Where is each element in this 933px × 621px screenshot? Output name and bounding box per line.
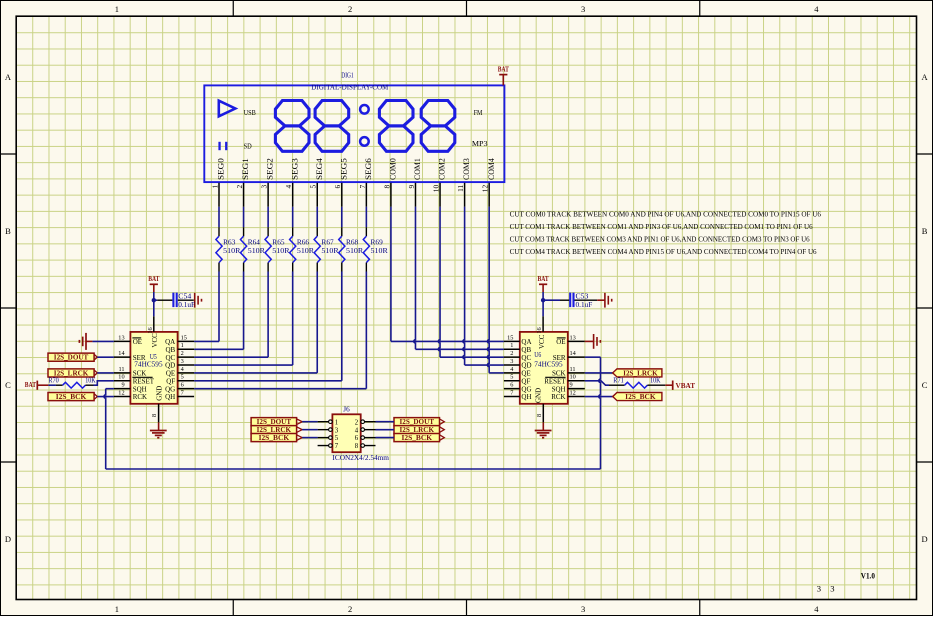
- svg-text:VBAT: VBAT: [676, 381, 696, 390]
- svg-text:CUT COM4 TRACK BETWEEN COM4 AN: CUT COM4 TRACK BETWEEN COM4 AND PIN15 OF…: [510, 248, 817, 256]
- svg-text:RCK: RCK: [551, 393, 565, 401]
- svg-text:14: 14: [118, 350, 125, 357]
- svg-text:8: 8: [151, 414, 158, 417]
- svg-text:I2S_BCK: I2S_BCK: [56, 394, 87, 401]
- svg-text:QC: QC: [165, 354, 175, 362]
- svg-text:5: 5: [510, 374, 513, 381]
- svg-text:COM0: COM0: [389, 158, 398, 180]
- svg-text:0.1uF: 0.1uF: [178, 301, 195, 309]
- svg-text:I2S_BCK: I2S_BCK: [259, 435, 290, 442]
- svg-text:1: 1: [510, 342, 513, 349]
- svg-text:I2S_LRCK: I2S_LRCK: [54, 370, 89, 377]
- svg-text:2: 2: [181, 350, 184, 357]
- svg-text:3: 3: [335, 427, 339, 434]
- svg-text:I2S_LRCK: I2S_LRCK: [623, 370, 658, 377]
- svg-text:A: A: [5, 72, 12, 82]
- svg-text:6: 6: [333, 185, 342, 189]
- svg-text:7: 7: [335, 443, 339, 450]
- svg-text:SEG1: SEG1: [241, 158, 250, 180]
- svg-text:QG: QG: [521, 385, 531, 393]
- svg-text:0.1uF: 0.1uF: [576, 301, 593, 309]
- svg-text:SEG3: SEG3: [290, 158, 299, 180]
- svg-text:510R: 510R: [297, 248, 315, 255]
- svg-text:7: 7: [510, 389, 513, 396]
- svg-text:SEG4: SEG4: [315, 158, 324, 180]
- svg-text:COM3: COM3: [462, 158, 471, 180]
- svg-text:R65: R65: [272, 240, 285, 247]
- svg-text:OE: OE: [133, 338, 142, 346]
- svg-text:14: 14: [570, 350, 577, 357]
- svg-text:1: 1: [210, 185, 219, 189]
- svg-text:D: D: [5, 534, 11, 544]
- svg-text:BAT: BAT: [148, 274, 159, 283]
- svg-text:USB: USB: [244, 108, 256, 117]
- svg-text:R67: R67: [321, 240, 334, 247]
- svg-text:10: 10: [570, 374, 576, 381]
- svg-text:11: 11: [456, 185, 465, 192]
- svg-text:8: 8: [355, 443, 359, 450]
- svg-text:12: 12: [481, 184, 490, 192]
- svg-text:SQH: SQH: [552, 385, 566, 393]
- svg-text:J6: J6: [343, 406, 350, 414]
- svg-text:SEG5: SEG5: [339, 158, 348, 180]
- svg-text:2: 2: [355, 419, 359, 426]
- svg-text:BAT: BAT: [25, 380, 36, 389]
- svg-text:11: 11: [119, 366, 125, 373]
- svg-text:QF: QF: [521, 377, 530, 385]
- svg-text:5: 5: [309, 185, 318, 189]
- svg-text:RESET: RESET: [544, 377, 566, 385]
- svg-text:3: 3: [181, 358, 184, 365]
- svg-text:QC: QC: [521, 354, 531, 362]
- svg-text:16: 16: [147, 327, 154, 333]
- svg-text:DIG1: DIG1: [341, 71, 354, 79]
- svg-text:V1.0: V1.0: [861, 570, 875, 580]
- svg-text:R68: R68: [346, 240, 359, 247]
- svg-text:QF: QF: [166, 377, 175, 385]
- svg-text:510R: 510R: [248, 248, 266, 255]
- svg-text:15: 15: [181, 334, 187, 341]
- svg-text:VCC: VCC: [151, 333, 159, 348]
- svg-text:13: 13: [118, 334, 124, 341]
- svg-text:A: A: [922, 72, 929, 82]
- svg-text:QB: QB: [165, 346, 175, 354]
- svg-text:B: B: [5, 226, 11, 236]
- svg-text:11: 11: [570, 366, 576, 373]
- svg-text:16: 16: [536, 327, 543, 333]
- svg-text:CUT COM1 TRACK BETWEEN COM1 AN: CUT COM1 TRACK BETWEEN COM1 AND PIN3 OF …: [510, 223, 813, 231]
- svg-text:7: 7: [358, 185, 367, 189]
- svg-text:12: 12: [570, 389, 576, 396]
- svg-text:3: 3: [581, 604, 585, 614]
- svg-text:12: 12: [118, 389, 124, 396]
- svg-text:10K: 10K: [85, 378, 96, 385]
- svg-text:1: 1: [115, 4, 119, 14]
- svg-text:RESET: RESET: [133, 377, 155, 385]
- svg-text:2: 2: [348, 604, 352, 614]
- svg-text:6: 6: [510, 382, 513, 389]
- svg-text:GND: GND: [535, 388, 543, 403]
- svg-text:3: 3: [510, 358, 513, 365]
- svg-text:R69: R69: [371, 240, 384, 247]
- svg-text:2: 2: [348, 4, 352, 14]
- svg-text:74HC595: 74HC595: [134, 359, 163, 368]
- svg-text:4: 4: [814, 4, 819, 14]
- svg-text:R71: R71: [613, 377, 623, 384]
- svg-text:QE: QE: [166, 370, 175, 378]
- svg-text:R63: R63: [223, 240, 236, 247]
- svg-text:CUT COM0 TRACK BETWEEN COM0 AN: CUT COM0 TRACK BETWEEN COM0 AND PIN4 OF …: [510, 210, 822, 218]
- svg-text:R70: R70: [48, 378, 59, 385]
- svg-text:510R: 510R: [321, 248, 339, 255]
- svg-text:COM2: COM2: [438, 158, 447, 180]
- svg-text:1: 1: [335, 419, 338, 426]
- svg-text:3: 3: [260, 185, 269, 189]
- svg-text:QH: QH: [521, 393, 531, 401]
- svg-text:C53: C53: [576, 292, 589, 300]
- svg-text:1: 1: [181, 342, 184, 349]
- svg-text:8: 8: [382, 185, 391, 189]
- svg-text:R64: R64: [248, 240, 261, 247]
- svg-text:15: 15: [507, 334, 513, 341]
- svg-text:QE: QE: [521, 370, 530, 378]
- svg-text:SCK: SCK: [552, 370, 566, 378]
- svg-text:B: B: [922, 226, 928, 236]
- svg-text:9: 9: [407, 185, 416, 189]
- svg-text:QA: QA: [521, 338, 531, 346]
- svg-text:FM: FM: [474, 108, 483, 117]
- svg-text:1: 1: [115, 604, 119, 614]
- svg-text:C: C: [5, 380, 11, 390]
- svg-text:R66: R66: [297, 240, 310, 247]
- svg-text:13: 13: [570, 334, 576, 341]
- svg-text:SQH: SQH: [133, 385, 147, 393]
- svg-text:SD: SD: [244, 141, 253, 150]
- svg-text:SEG2: SEG2: [266, 158, 275, 180]
- svg-text:COM1: COM1: [413, 158, 422, 180]
- svg-text:QG: QG: [165, 385, 175, 393]
- svg-text:9: 9: [570, 382, 573, 389]
- svg-text:4: 4: [814, 604, 819, 614]
- svg-text:SEG6: SEG6: [364, 158, 373, 180]
- svg-text:2: 2: [235, 185, 244, 189]
- svg-text:D: D: [922, 534, 928, 544]
- svg-text:4: 4: [355, 427, 359, 434]
- svg-text:QH: QH: [165, 393, 175, 401]
- svg-text:GND: GND: [155, 386, 163, 401]
- svg-text:510R: 510R: [371, 248, 389, 255]
- svg-text:3: 3: [581, 4, 585, 14]
- svg-text:3: 3: [817, 584, 821, 594]
- svg-text:2: 2: [510, 350, 513, 357]
- svg-text:U6: U6: [534, 351, 541, 359]
- svg-text:SEG0: SEG0: [217, 158, 226, 180]
- svg-text:7: 7: [181, 389, 184, 396]
- svg-text:510R: 510R: [272, 248, 290, 255]
- svg-text:9: 9: [121, 382, 124, 389]
- svg-text:74HC595: 74HC595: [534, 359, 563, 368]
- svg-text:5: 5: [335, 435, 339, 442]
- svg-text:BAT: BAT: [538, 274, 549, 283]
- svg-text:I2S_DOUT: I2S_DOUT: [54, 355, 89, 362]
- svg-text:QD: QD: [521, 362, 531, 370]
- svg-text:QD: QD: [165, 362, 175, 370]
- svg-text:6: 6: [181, 382, 184, 389]
- svg-text:6: 6: [355, 435, 359, 442]
- svg-text:4: 4: [284, 185, 293, 189]
- svg-text:DIGITAL-DISPLAY-COM: DIGITAL-DISPLAY-COM: [311, 82, 388, 91]
- svg-text:10: 10: [431, 184, 440, 192]
- svg-text:SCK: SCK: [133, 370, 147, 378]
- svg-text:COM4: COM4: [487, 158, 496, 180]
- svg-text:5: 5: [181, 374, 184, 381]
- svg-text:RCK: RCK: [133, 393, 147, 401]
- svg-text:I2S_BCK: I2S_BCK: [625, 394, 656, 401]
- svg-text:8: 8: [536, 414, 543, 417]
- svg-text:10K: 10K: [650, 377, 661, 384]
- svg-text:510R: 510R: [223, 248, 241, 255]
- svg-text:C54: C54: [178, 292, 191, 300]
- svg-text:10: 10: [118, 374, 124, 381]
- svg-text:MP3: MP3: [472, 139, 488, 148]
- svg-text:QB: QB: [521, 346, 531, 354]
- svg-text:BAT: BAT: [498, 65, 509, 74]
- svg-text:3: 3: [830, 584, 834, 594]
- svg-text:510R: 510R: [346, 248, 364, 255]
- svg-text:QA: QA: [165, 338, 175, 346]
- svg-text:C: C: [922, 380, 928, 390]
- svg-text:ICON2X4/2.54mm: ICON2X4/2.54mm: [332, 453, 389, 462]
- svg-text:OE: OE: [556, 338, 565, 346]
- svg-text:VCC: VCC: [538, 334, 546, 349]
- svg-text:CUT COM3 TRACK BETWEEN COM3 AN: CUT COM3 TRACK BETWEEN COM3 AND PIN1 OF …: [510, 235, 810, 243]
- svg-text:I2S_BCK: I2S_BCK: [402, 435, 433, 442]
